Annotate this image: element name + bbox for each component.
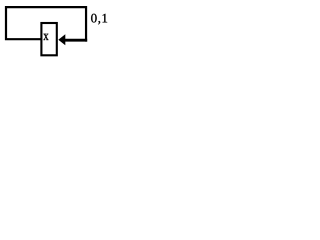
wire: arrowhead pointing left into the box right side [58,34,65,45]
label 0,1: digit 1 [103,14,108,23]
label 0,1: digit 0 [91,14,97,23]
wire: bold arrow shaft from right vertical toward the box [65,39,87,42]
label 0,1: comma [98,21,100,24]
node X: tape cell box [41,23,56,55]
wire loop: from box left side, left, up, across the top, down the right side [6,7,86,41]
node X: cell label "x" [43,34,48,40]
